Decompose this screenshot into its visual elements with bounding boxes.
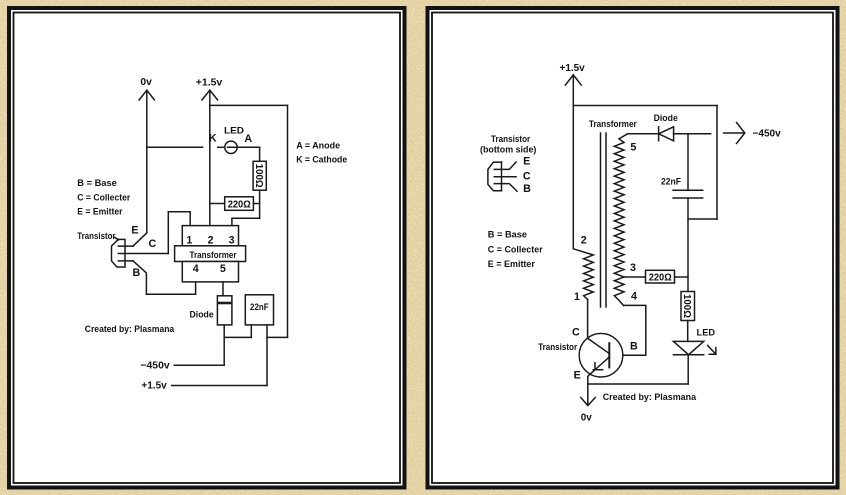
capacitor 22nF (left, box): [245, 295, 273, 325]
transformer T1 top box pins 1 2 3: [182, 226, 238, 247]
right panel frame: [428, 8, 838, 488]
svg-text:LED: LED: [697, 328, 716, 339]
svg-text:1: 1: [186, 234, 192, 246]
svg-text:3: 3: [630, 262, 636, 274]
resistor 220ohm (left): [210, 197, 260, 211]
svg-text:+1.5v: +1.5v: [141, 381, 167, 392]
svg-text:5: 5: [220, 263, 226, 275]
left panel frame: [9, 8, 405, 488]
LED D1 (circle symbol): [218, 141, 260, 153]
transistor Q2 icon flat face: [501, 162, 503, 191]
wire top rail: [210, 104, 288, 106]
svg-text:E = Emitter: E = Emitter: [488, 259, 535, 270]
svg-text:Transformer: Transformer: [589, 119, 637, 130]
wire coil pin1 down to collector: [587, 300, 589, 339]
transistor Q1 package (side view): [112, 239, 126, 267]
svg-text:Created by: Plasmana: Created by: Plasmana: [603, 392, 697, 403]
transformer T1 label box: [175, 246, 246, 262]
svg-text:100Ω: 100Ω: [681, 294, 692, 318]
wire top rail: [573, 105, 717, 107]
svg-text:LED: LED: [224, 125, 244, 136]
wire emitter to bottom rail and 0v: [587, 377, 589, 404]
transistor Q1 pin E: [118, 245, 133, 247]
wire -450v lead: [174, 364, 224, 366]
wire +1.5v vertical to transformer pin 2: [209, 90, 211, 225]
svg-text:2: 2: [208, 234, 214, 246]
transformer T2 secondary winding upper (pin 5 to tap 3): [614, 134, 627, 277]
svg-text:22nF: 22nF: [661, 177, 681, 188]
wire emitter diagonal to 0v: [133, 233, 147, 246]
svg-text:Transformer: Transformer: [190, 250, 237, 261]
svg-text:K: K: [209, 133, 217, 145]
transformer T2 primary winding (pin 2 to pin 1): [573, 249, 593, 300]
svg-text:E: E: [574, 369, 581, 381]
transistor Q2 icon pin C: [494, 176, 516, 178]
transistor Q1 leader line: [115, 237, 119, 239]
wire right edge link: [267, 336, 288, 338]
transistor Q2 package icon: [488, 162, 502, 191]
svg-text:22nF: 22nF: [250, 302, 269, 313]
wire LED to bottom rail: [687, 355, 689, 384]
wire diode to -450v: [223, 325, 225, 365]
capacitor 22nF plates: [673, 190, 703, 198]
svg-text:2: 2: [581, 234, 587, 246]
svg-text:(bottom side): (bottom side): [480, 145, 536, 156]
wire right edge vertical: [716, 106, 718, 220]
0v rail arrow: [139, 90, 154, 100]
svg-text:0v: 0v: [581, 413, 592, 424]
svg-text:B: B: [630, 340, 638, 352]
svg-text:Transistor: Transistor: [491, 134, 530, 145]
svg-text:B: B: [523, 183, 531, 195]
svg-text:4: 4: [631, 290, 637, 302]
wire +1.5v bottom lead: [172, 385, 267, 387]
transistor Q2 emitter arrowhead: [593, 363, 602, 370]
transistor Q2 emitter diagonal: [588, 357, 610, 377]
svg-text:Created by: Plasmana: Created by: Plasmana: [85, 324, 175, 335]
wire jog to transformer pin 3: [232, 218, 260, 225]
wire +1.5v vertical: [572, 75, 574, 249]
svg-text:+1.5v: +1.5v: [560, 63, 586, 74]
svg-text:Transistor: Transistor: [538, 342, 577, 353]
transistor Q2 icon pin B: [494, 184, 517, 192]
diode D2 (box with band): [217, 296, 232, 325]
wire resistor to LED: [687, 321, 689, 342]
svg-text:C = Collecter: C = Collecter: [77, 192, 130, 203]
wire base to pin 4: [133, 261, 196, 294]
svg-text:B = Base: B = Base: [488, 229, 527, 240]
svg-text:Transistor: Transistor: [77, 231, 115, 242]
svg-text:B: B: [133, 267, 141, 279]
svg-text:−450v: −450v: [140, 360, 170, 371]
resistor 100ohm (left, vertical box): [253, 161, 266, 190]
svg-text:3: 3: [229, 234, 235, 246]
resistor 220ohm (right): [624, 270, 688, 283]
transistor Q1 pin B: [118, 260, 133, 262]
svg-text:C: C: [572, 326, 580, 338]
svg-text:100Ω: 100Ω: [253, 164, 264, 188]
svg-text:E: E: [523, 156, 530, 168]
transistor Q2 base bar: [608, 342, 610, 368]
wire right edge vertical: [287, 105, 289, 337]
wire 100ohm to 220ohm junction: [259, 190, 261, 218]
svg-text:Diode: Diode: [654, 113, 678, 124]
wire collector step to pin 1: [168, 212, 190, 254]
0v rail arrow (down): [581, 398, 595, 406]
wire 22nF left lead: [250, 325, 252, 338]
svg-text:0v: 0v: [140, 77, 152, 88]
wire diode output: [674, 133, 711, 135]
svg-text:A = Anode: A = Anode: [296, 141, 340, 152]
transformer T2 core lines: [601, 133, 607, 307]
LED D4 (triangle symbol): [673, 341, 703, 354]
svg-text:E: E: [131, 224, 138, 236]
+1.5v rail arrow: [202, 90, 218, 100]
svg-text:5: 5: [630, 141, 636, 153]
wire diode junction to 22nF left lead: [224, 336, 251, 338]
svg-text:E = Emitter: E = Emitter: [77, 207, 122, 218]
wire LED anode down to resistor: [259, 147, 261, 161]
wire right edge link to capacitor: [688, 218, 717, 220]
svg-text:220Ω: 220Ω: [228, 199, 251, 210]
transformer T1 bottom box pins 4 5: [182, 262, 238, 282]
transformer T2 secondary winding lower (tap 3 to pin 4): [614, 277, 624, 305]
transistor Q1 pin C: [118, 253, 168, 255]
svg-text:B = Base: B = Base: [77, 178, 117, 189]
svg-text:C = Collecter: C = Collecter: [488, 244, 543, 255]
wire 22nF right lead down to +1.5v: [266, 325, 268, 386]
svg-text:A: A: [244, 133, 252, 145]
wire bottom rail: [588, 383, 688, 385]
wire capacitor bottom chain: [687, 198, 689, 292]
-450v output arrow: [724, 123, 745, 144]
wire 0v branch to LED cathode: [147, 146, 203, 148]
wire 0v vertical: [146, 90, 148, 233]
svg-text:1: 1: [574, 291, 580, 303]
svg-text:Diode: Diode: [190, 310, 214, 321]
svg-text:220Ω: 220Ω: [649, 273, 672, 284]
svg-text:K = Cathode: K = Cathode: [296, 154, 347, 165]
svg-text:4: 4: [193, 263, 199, 275]
diode D3 (triangle symbol): [659, 127, 674, 141]
transistor Q2 (circle symbol): [579, 333, 623, 377]
svg-text:+1.5v: +1.5v: [196, 77, 223, 88]
wire base to pin 4 (right): [623, 305, 646, 355]
resistor 100ohm (right, vertical box): [681, 292, 695, 321]
svg-text:−450v: −450v: [753, 129, 782, 140]
wire pin 5 to diode: [222, 282, 224, 296]
wire diode to capacitor top: [687, 134, 689, 191]
transistor Q2 icon pin E: [494, 162, 516, 169]
wire coil to diode: [628, 133, 659, 135]
svg-text:C: C: [523, 171, 531, 183]
svg-text:C: C: [148, 238, 156, 250]
LED D4 light arrow: [708, 345, 716, 354]
+1.5v rail arrow: [565, 75, 581, 85]
transistor Q2 collector diagonal: [588, 338, 610, 353]
